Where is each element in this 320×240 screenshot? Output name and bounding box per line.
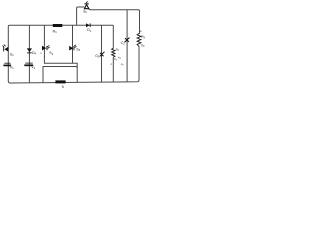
svg-text:G1: G1 (95, 54, 100, 59)
svg-text:S2: S2 (49, 51, 53, 56)
svg-text:V1: V1 (10, 66, 14, 71)
svg-text:C2: C2 (121, 41, 126, 46)
svg-text:V2: V2 (31, 65, 35, 70)
svg-text:D1: D1 (87, 28, 92, 33)
svg-text:R1: R1 (53, 29, 58, 34)
svg-text:R5: R5 (141, 35, 145, 40)
svg-text:S1: S1 (10, 53, 14, 58)
svg-text:S3: S3 (76, 48, 80, 53)
svg-text:D4: D4 (32, 51, 37, 56)
